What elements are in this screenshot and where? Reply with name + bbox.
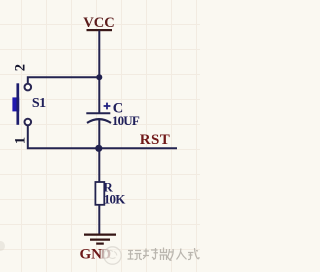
switch S1 (12, 83, 31, 125)
玩 (128, 251, 143, 260)
ground symbol (84, 235, 116, 244)
watermark text 玩转嵌入式 (drawn strokes) (128, 248, 200, 261)
svg-text:10UF: 10UF (112, 113, 140, 128)
top plate (86, 112, 110, 114)
pin 1 circle (25, 119, 32, 126)
node junction RST (95, 145, 102, 152)
入 (177, 249, 187, 260)
watermark left-edge smudge (0, 241, 5, 251)
pin 2 circle (25, 84, 32, 91)
actuator rectangle (12, 97, 19, 111)
转 (143, 248, 158, 259)
plus sign (104, 103, 111, 110)
svg-text:VCC: VCC (83, 15, 114, 31)
svg-text:10K: 10K (104, 192, 126, 207)
node junction top (96, 74, 102, 80)
bottom curved plate (87, 119, 111, 123)
svg-text:S1: S1 (32, 96, 46, 111)
svg-text:1: 1 (12, 137, 28, 144)
contact bar (16, 83, 19, 125)
VCC power bar (87, 29, 113, 31)
watermark logo circle (104, 247, 121, 264)
capacitor C1 10UF (86, 103, 111, 123)
svg-text:2: 2 (12, 64, 28, 71)
嵌 (160, 248, 174, 261)
resistor R 10K (95, 182, 104, 205)
svg-text:RST: RST (140, 132, 170, 148)
wire : resistor to ground (98, 205, 100, 234)
wire : main vertical VCC to capacitor (98, 31, 100, 113)
wire : top horizontal from switch pin2 to main line (28, 77, 100, 83)
wire : capacitor to resistor (98, 120, 100, 183)
svg-text:GN: GN (80, 246, 103, 262)
wire : switch pin1 down and right to RST (28, 125, 177, 148)
式 (188, 248, 199, 260)
